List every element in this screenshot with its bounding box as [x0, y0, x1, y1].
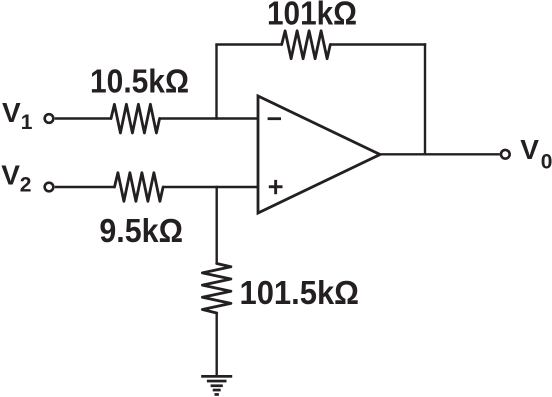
- resistor 9.5kΩ (R2) zigzag: [115, 173, 164, 202]
- wire: feedback right vertical (top rail down to output): [424, 43, 426, 155]
- wire: feedback left vertical (inverting node up to top rail): [215, 45, 217, 120]
- resistor 101.5kΩ (vertical) zigzag: [202, 264, 231, 314]
- label V2: [1, 160, 31, 197]
- svg-text:101kΩ: 101kΩ: [267, 0, 357, 32]
- wire: top rail left segment: [215, 43, 282, 45]
- wire: resistor 101.5k to ground: [215, 312, 217, 376]
- svg-text:101.5kΩ: 101.5kΩ: [240, 274, 360, 311]
- wire: top rail right segment: [330, 43, 426, 45]
- svg-text:V: V: [2, 97, 21, 128]
- svg-text:2: 2: [20, 174, 32, 197]
- op-amp U1 triangle: [258, 96, 380, 213]
- wire: V2 terminal to resistor 9.5k: [55, 186, 115, 188]
- wire: V1 terminal to resistor 10.5k: [55, 117, 112, 119]
- svg-text:0: 0: [541, 151, 552, 174]
- wire: non-inverting node down to resistor 101.5k: [215, 186, 217, 265]
- terminal V0 (open circle): [501, 150, 510, 159]
- svg-text:10.5kΩ: 10.5kΩ: [90, 62, 189, 99]
- wire: resistor 9.5k to op-amp non-inverting input: [163, 186, 260, 188]
- svg-text:V: V: [1, 160, 20, 191]
- resistor 10.5kΩ (R1) zigzag: [111, 104, 160, 133]
- wire: op-amp output to V0 terminal: [379, 153, 500, 155]
- svg-text:V: V: [520, 134, 539, 165]
- label V0: [520, 134, 552, 174]
- svg-text:9.5kΩ: 9.5kΩ: [99, 212, 183, 249]
- ground symbol: [201, 375, 232, 396]
- terminal V1 (open circle): [45, 114, 54, 123]
- svg-text:1: 1: [21, 111, 33, 134]
- resistor 101kΩ (feedback) zigzag: [282, 31, 331, 59]
- op-amp inverting input minus sign: [268, 117, 281, 120]
- terminal V2 (open circle): [45, 183, 54, 192]
- wire: resistor 10.5k to op-amp inverting input: [159, 117, 259, 119]
- label V1: [2, 97, 33, 134]
- op-amp non-inverting input plus sign: [269, 180, 283, 194]
